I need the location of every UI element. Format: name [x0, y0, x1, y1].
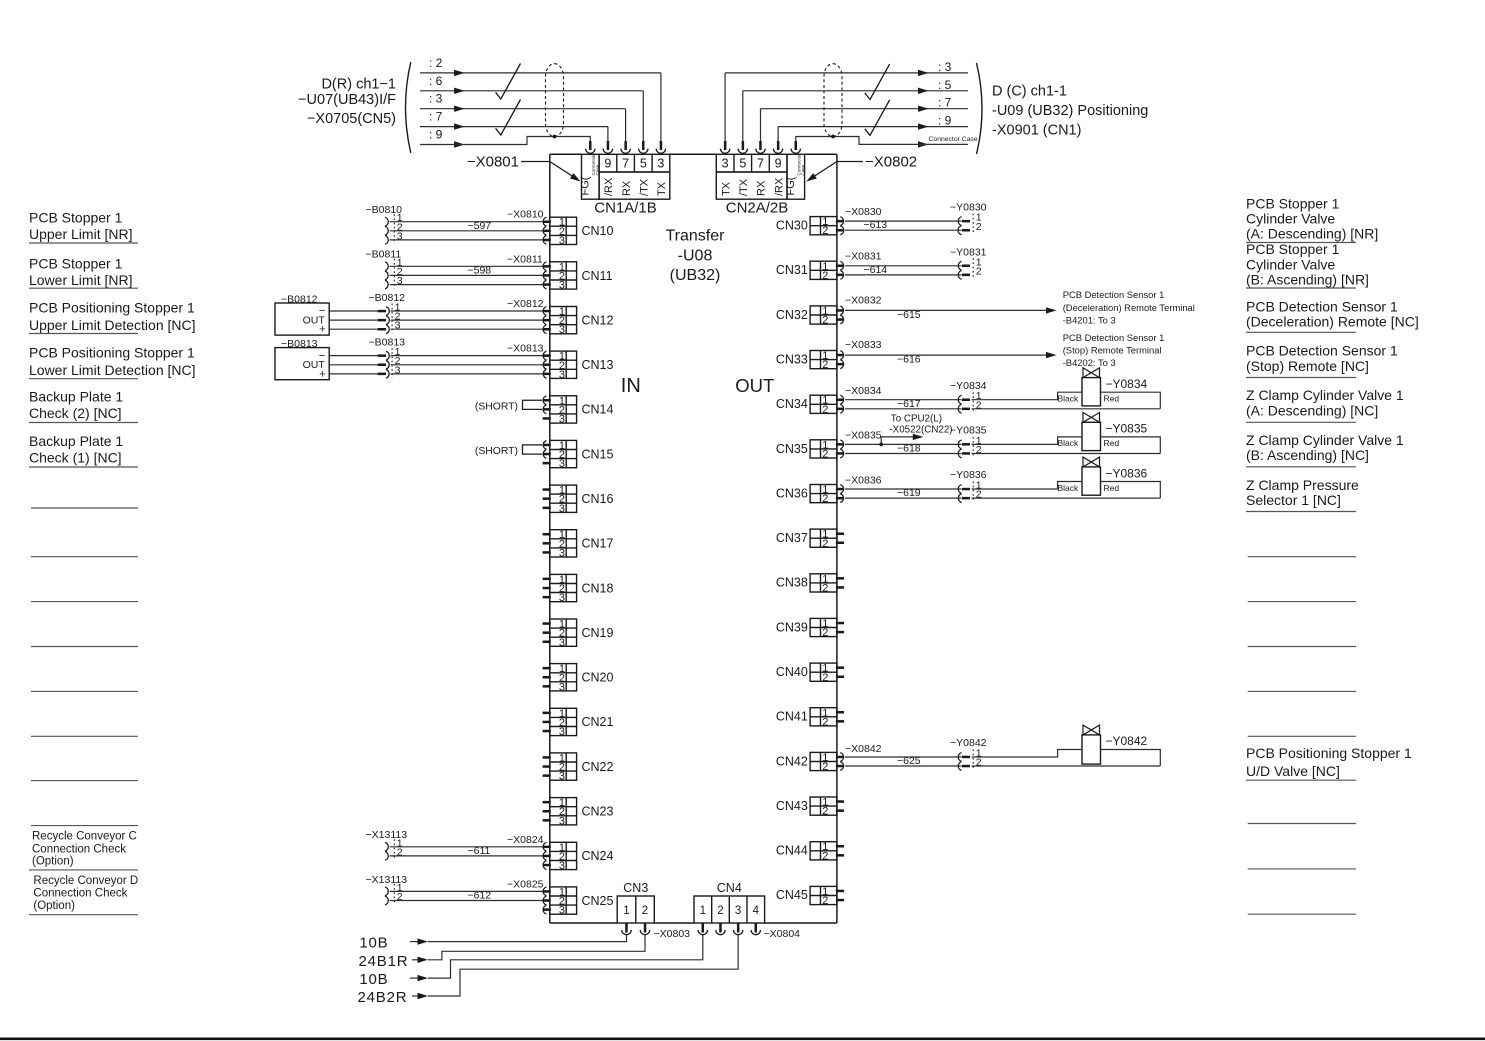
svg-text:PCB Stopper 1: PCB Stopper 1: [1246, 196, 1340, 212]
pins CN42 plugs -X0842: [836, 743, 882, 770]
connector CN34: [776, 395, 837, 416]
svg-text:3: 3: [559, 637, 565, 649]
svg-text:−615: −615: [897, 309, 921, 321]
svg-text:-X0901 (CN1): -X0901 (CN1): [992, 123, 1081, 139]
svg-text:: 9: : 9: [429, 128, 443, 142]
svg-text:CN20: CN20: [582, 671, 614, 685]
pins CN36 plugs -X0836: [836, 474, 882, 502]
pins CN25 sockets -X0825: [507, 878, 551, 914]
connector CN15: [550, 440, 614, 470]
svg-text:PCB Stopper 1: PCB Stopper 1: [29, 210, 123, 226]
svg-text:Check (1) [NC]: Check (1) [NC]: [29, 450, 122, 466]
svg-text:/RX: /RX: [603, 177, 615, 196]
solenoid valve -Y0834: [1058, 368, 1148, 406]
svg-text:−X0802: −X0802: [865, 154, 917, 171]
svg-text:−611: −611: [468, 845, 491, 857]
svg-text:2: 2: [822, 582, 828, 594]
svg-text:24B2R: 24B2R: [358, 989, 408, 1006]
svg-text:10B: 10B: [359, 971, 388, 988]
svg-text:CN39: CN39: [776, 620, 808, 634]
svg-text:-U08: -U08: [678, 247, 713, 264]
svg-text:3: 3: [395, 320, 401, 332]
svg-text:−X0831: −X0831: [845, 251, 882, 263]
svg-text:PCB Stopper 1: PCB Stopper 1: [29, 256, 123, 272]
pins CN40 unused: [836, 666, 844, 678]
svg-text:2: 2: [976, 757, 982, 769]
wire -619 to valve connector -Y0836: [845, 469, 987, 502]
svg-text:−X0810: −X0810: [507, 209, 544, 221]
svg-text:: 2: : 2: [429, 56, 443, 70]
svg-text:Black: Black: [1058, 483, 1080, 493]
connector CN45: [776, 886, 837, 907]
label PCB Stopper 1 Upper Limit [NR]: [29, 210, 138, 243]
connector CN13: [550, 351, 614, 381]
connector CN39: [776, 618, 837, 639]
svg-text:Lower Limit [NR]: Lower Limit [NR]: [29, 272, 132, 288]
svg-text:3: 3: [559, 369, 565, 381]
svg-text:CN41: CN41: [776, 710, 808, 724]
callout -X0801: [467, 154, 582, 185]
svg-text:−X0801: −X0801: [467, 154, 519, 171]
connector CN30: [776, 216, 837, 237]
pins CN14 shorting plug (SHORT): [475, 396, 551, 420]
pins CN44 unused: [836, 845, 844, 857]
svg-text:Red: Red: [1104, 438, 1120, 448]
label PCB Stopper 1 Cylinder Valve (A: Descending) [NR]: [1246, 196, 1378, 243]
svg-text:+: +: [319, 368, 325, 380]
junction shield drain right: [831, 135, 835, 139]
svg-text:7: 7: [757, 157, 764, 171]
svg-text:CN32: CN32: [776, 308, 808, 322]
label PCB Stopper 1 Lower Limit [NR]: [29, 256, 138, 289]
svg-text:(Stop) Remote [NC]: (Stop) Remote [NC]: [1246, 358, 1369, 374]
svg-text:−X0835: −X0835: [845, 430, 882, 442]
label D (C) ch1-1 -U09 (UB32) Positioning -X0901 (CN1): [992, 84, 1148, 139]
wire sensor to block: [329, 356, 542, 374]
svg-text:Upper Limit [NR]: Upper Limit [NR]: [29, 226, 132, 242]
blank labels right CN37-CN41: [1248, 557, 1356, 737]
svg-text:2: 2: [642, 905, 648, 917]
svg-text:/RX: /RX: [773, 177, 785, 196]
svg-text:CN45: CN45: [776, 888, 808, 902]
svg-text:−B0812: −B0812: [281, 294, 318, 306]
svg-text:: 7: : 7: [429, 110, 443, 124]
label PCB Detection Sensor 1 (Deceleration) Remote [NC]: [1246, 299, 1419, 333]
solenoid valve -Y0836: [1058, 457, 1148, 495]
pins CN32 plugs -X0832: [836, 294, 882, 324]
svg-text:TX: TX: [720, 181, 732, 196]
label PCB Detection Sensor 1 (Stop) Remote [NC]: [1246, 343, 1398, 378]
svg-text:5: 5: [739, 157, 746, 171]
svg-text:To CPU2(L): To CPU2(L): [891, 413, 942, 424]
pins CN30 plugs -X0830: [836, 206, 882, 235]
svg-text:−X0842: −X0842: [845, 743, 882, 755]
svg-text:CN2A/2B: CN2A/2B: [726, 200, 789, 217]
svg-text:2: 2: [822, 270, 828, 282]
svg-text:RX: RX: [621, 180, 633, 196]
svg-text:Case: Case: [595, 164, 600, 175]
svg-text:RX: RX: [756, 180, 768, 196]
wire valve leads -Y0835: [972, 437, 1161, 454]
svg-text:−X0812: −X0812: [507, 298, 544, 310]
pins CN38 unused: [836, 577, 844, 589]
wire sensor to block: [329, 311, 542, 329]
svg-text:−X0832: −X0832: [845, 294, 882, 306]
pins CN24 sockets -X0824: [507, 834, 551, 870]
wire -598 harness: [390, 264, 543, 284]
label PCB Stopper 1 Cylinder Valve (B: Ascending) [NR]: [1246, 241, 1369, 288]
svg-text:CN36: CN36: [776, 486, 808, 500]
svg-text:−U07(UB43)I/F: −U07(UB43)I/F: [298, 92, 396, 108]
svg-text:−617: −617: [897, 398, 921, 410]
connector CN41: [776, 707, 837, 728]
cable bracket left: [406, 62, 411, 153]
svg-text:CN42: CN42: [776, 754, 808, 768]
label Backup Plate 1 Check (2) [NC]: [29, 389, 138, 423]
pins CN18 unused: [543, 578, 551, 599]
svg-text:(A: Descending) [NC]: (A: Descending) [NC]: [1246, 403, 1378, 419]
shield left: [546, 64, 564, 137]
svg-text:TX: TX: [656, 181, 668, 196]
svg-text:2: 2: [822, 672, 828, 684]
svg-text:3: 3: [559, 771, 565, 783]
connector CN25: [550, 886, 614, 916]
svg-text:9: 9: [604, 157, 611, 171]
twisted pair mark left B: [496, 100, 521, 136]
pins CN33 plugs -X0833: [836, 339, 882, 369]
svg-text:/TX: /TX: [738, 178, 750, 196]
cable plug -B0810: [366, 204, 403, 244]
svg-text:2: 2: [822, 895, 828, 907]
svg-text:: 3: : 3: [429, 92, 443, 106]
svg-text:PCB Positioning Stopper 1: PCB Positioning Stopper 1: [29, 345, 195, 361]
pins CN22 unused: [543, 756, 551, 777]
svg-text:CN34: CN34: [776, 397, 808, 411]
connector CN19: [550, 619, 614, 649]
svg-text:Red: Red: [1104, 483, 1120, 493]
wire :6 to CN1A pin 5 /TX: [420, 74, 643, 141]
svg-text:−616: −616: [897, 354, 921, 366]
connector CN35: [776, 439, 837, 460]
svg-text:3: 3: [657, 157, 664, 171]
svg-text:Cylinder Valve: Cylinder Valve: [1246, 257, 1335, 273]
label Z Clamp Pressure Selector 1 [NC]: [1246, 477, 1359, 512]
svg-text:2: 2: [976, 265, 982, 277]
svg-text:CN31: CN31: [776, 263, 808, 277]
wire valve leads -Y0834: [972, 392, 1161, 409]
pins CN20 unused: [543, 667, 551, 688]
svg-text:CN1A/1B: CN1A/1B: [594, 200, 657, 217]
svg-text:3: 3: [559, 592, 565, 604]
pins CN45 unused: [836, 890, 844, 902]
wire :7 to CN1A pin 9 /RX: [420, 110, 608, 141]
svg-text:2: 2: [822, 716, 828, 728]
pins -X0803 below CN3: [622, 924, 690, 941]
wire -616 to remote terminal: [845, 332, 1164, 368]
svg-text:2: 2: [822, 404, 828, 416]
label D(R) ch1-1 -U07(UB43)I/F -X0705(CN5): [298, 76, 396, 127]
svg-text:CN21: CN21: [582, 715, 614, 729]
svg-text:PCB Detection Sensor 1: PCB Detection Sensor 1: [1063, 289, 1165, 300]
svg-text:3: 3: [559, 280, 565, 292]
label Z Clamp Cylinder Valve 1 (B: Ascending) [NC]: [1246, 432, 1404, 467]
svg-text:Selector 1 [NC]: Selector 1 [NC]: [1246, 492, 1341, 508]
connector CN10: [550, 217, 614, 247]
pins CN2A 3 5 7 9 FG: [720, 141, 800, 153]
svg-text:3: 3: [395, 364, 401, 376]
svg-text:CN22: CN22: [582, 760, 614, 774]
connector CN38: [776, 573, 837, 594]
pins CN43 unused: [836, 800, 844, 812]
svg-text:(B: Ascending) [NC]: (B: Ascending) [NC]: [1246, 447, 1369, 463]
svg-text:−X0803: −X0803: [654, 928, 691, 940]
twisted pair mark right B: [865, 100, 890, 136]
label Z Clamp Cylinder Valve 1 (A: Descending) [NC]: [1246, 387, 1404, 422]
pins CN23 unused: [543, 801, 551, 822]
connector CN44: [776, 841, 837, 862]
svg-text:CN16: CN16: [582, 492, 614, 506]
svg-text:Cylinder Valve: Cylinder Valve: [1246, 211, 1335, 227]
svg-text:3: 3: [559, 905, 565, 917]
connector CN3: [617, 881, 654, 923]
connector CN12: [550, 306, 614, 336]
svg-text:−597: −597: [468, 220, 492, 232]
svg-text:: 3: : 3: [938, 60, 952, 74]
pins -X0804 below CN4: [698, 924, 800, 941]
svg-text:2: 2: [717, 905, 723, 917]
net 24B2R to CN4 pin 3: [358, 935, 739, 1006]
svg-text:3: 3: [559, 324, 565, 336]
connector CN21: [550, 708, 614, 738]
svg-text:3: 3: [397, 230, 403, 242]
svg-text:−Y0835: −Y0835: [1106, 422, 1148, 436]
svg-text:CN12: CN12: [582, 313, 614, 327]
blank labels left CN16-CN23: [31, 508, 138, 826]
svg-text:2: 2: [822, 806, 828, 818]
svg-text:−619: −619: [897, 487, 921, 499]
svg-text:−X0804: −X0804: [764, 928, 801, 940]
svg-text:-B4201: To 3: -B4201: To 3: [1063, 315, 1116, 326]
svg-text:(Stop) Remote Terminal: (Stop) Remote Terminal: [1063, 345, 1162, 356]
node IN: [621, 375, 641, 397]
connector CN42: [776, 752, 837, 773]
svg-text:3: 3: [735, 905, 741, 917]
svg-text:CN18: CN18: [582, 581, 614, 595]
svg-text:Connector Case: Connector Case: [929, 136, 978, 143]
svg-text:Recycle Conveyor C: Recycle Conveyor C: [32, 831, 137, 843]
wire Connector Case shield drain from CN2A FG: [796, 136, 978, 148]
svg-text:Black: Black: [1058, 438, 1080, 448]
svg-text:3: 3: [559, 815, 565, 827]
connector CN36: [776, 484, 837, 505]
wire -625 to valve connector -Y0842: [845, 737, 987, 770]
svg-text:Backup Plate 1: Backup Plate 1: [29, 389, 123, 405]
svg-text:-X0522(CN22): -X0522(CN22): [889, 424, 952, 435]
svg-text:CN40: CN40: [776, 665, 808, 679]
callout -X0802: [804, 154, 917, 185]
label PCB Positioning Stopper 1 U/D Valve [NC]: [1246, 745, 1412, 780]
svg-text:-B4202: To 3: -B4202: To 3: [1063, 357, 1116, 368]
svg-text:2: 2: [397, 891, 403, 903]
svg-text:Backup Plate 1: Backup Plate 1: [29, 433, 123, 449]
svg-text:CN11: CN11: [582, 269, 613, 283]
wire -615 to remote terminal: [845, 289, 1195, 325]
net 24B1R to CN3 pin 2: [359, 935, 646, 970]
svg-text:D (C) ch1-1: D (C) ch1-1: [992, 84, 1067, 100]
svg-text:CN10: CN10: [582, 224, 614, 238]
wire -617 to valve connector -Y0834: [845, 380, 987, 413]
svg-text:−598: −598: [468, 264, 492, 276]
junction shield drain left: [553, 135, 557, 139]
connector pair -B0813: [369, 337, 406, 379]
label PCB Positioning Stopper 1 Upper Limit Detection [NC]: [29, 299, 196, 333]
svg-text:3: 3: [722, 157, 729, 171]
wire -614 to valve cable -Y0831: [845, 246, 987, 279]
svg-text:(SHORT): (SHORT): [475, 402, 518, 413]
svg-text:-U09 (UB32) Positioning: -U09 (UB32) Positioning: [992, 103, 1148, 119]
svg-text:−X0813: −X0813: [507, 343, 544, 355]
svg-text:2: 2: [822, 315, 828, 327]
connector CN22: [550, 753, 614, 783]
connector CN40: [776, 663, 837, 684]
net 10B to CN3 pin 1: [359, 935, 626, 952]
svg-text:Connection Check: Connection Check: [33, 888, 127, 900]
svg-text:7: 7: [622, 157, 629, 171]
svg-text:−X0836: −X0836: [845, 474, 882, 486]
svg-text:−613: −613: [864, 219, 888, 231]
svg-text:3: 3: [559, 681, 565, 693]
wire :3 from CN2A pin 3 TX: [725, 60, 968, 141]
svg-text:PCB Positioning Stopper 1: PCB Positioning Stopper 1: [29, 299, 195, 315]
svg-text:+: +: [319, 324, 325, 336]
svg-text:2: 2: [976, 399, 982, 411]
svg-text:: 5: : 5: [938, 78, 952, 92]
svg-text:3: 3: [397, 275, 403, 287]
svg-text:PCB Stopper 1: PCB Stopper 1: [1246, 241, 1340, 257]
svg-text:3: 3: [559, 726, 565, 738]
svg-text:2: 2: [976, 489, 982, 501]
connector CN14: [550, 395, 614, 425]
svg-text:2: 2: [822, 538, 828, 550]
wire :3 to CN1A pin 7 RX: [420, 92, 626, 141]
svg-text:5: 5: [640, 157, 647, 171]
svg-text:CN4: CN4: [717, 881, 742, 895]
svg-text:CN15: CN15: [582, 447, 614, 461]
svg-text:/TX: /TX: [638, 178, 650, 196]
svg-text:IN: IN: [621, 375, 641, 397]
svg-text:CN38: CN38: [776, 576, 808, 590]
svg-text:9: 9: [775, 157, 782, 171]
svg-text:(Option): (Option): [33, 900, 75, 912]
svg-text:: 9: : 9: [938, 114, 952, 128]
svg-text:CN43: CN43: [776, 799, 808, 813]
svg-text:Check (2) [NC]: Check (2) [NC]: [29, 405, 122, 421]
svg-text:−X0824: −X0824: [507, 834, 544, 846]
cable bracket right: [977, 63, 983, 154]
connector CN16: [550, 485, 614, 515]
svg-text:PCB Positioning Stopper 1: PCB Positioning Stopper 1: [1246, 745, 1412, 761]
node OUT: [735, 375, 774, 396]
connector CN4: [694, 881, 765, 923]
connector CN1A/1B: [580, 154, 670, 217]
svg-text:2: 2: [976, 444, 982, 456]
svg-text:(A: Descending) [NR]: (A: Descending) [NR]: [1246, 226, 1378, 242]
svg-text:2: 2: [822, 449, 828, 461]
label PCB Positioning Stopper 1 Lower Limit Detection [NC]: [29, 345, 196, 379]
twisted pair mark left A: [496, 64, 521, 100]
svg-text:(Deceleration) Remote Terminal: (Deceleration) Remote Terminal: [1063, 302, 1195, 313]
svg-text:(Deceleration) Remote [NC]: (Deceleration) Remote [NC]: [1246, 314, 1419, 330]
wire -613 to valve cable -Y0830: [845, 202, 987, 235]
pins CN21 unused: [543, 712, 551, 733]
svg-text:2: 2: [976, 221, 982, 233]
svg-text:4: 4: [753, 905, 760, 917]
svg-text:−618: −618: [897, 443, 921, 455]
pins CN35 plugs -X0835: [836, 430, 882, 458]
cable plug -B0811: [366, 249, 403, 289]
svg-text:PCB Detection Sensor 1: PCB Detection Sensor 1: [1063, 332, 1165, 343]
svg-text:2: 2: [822, 627, 828, 639]
pins CN17 unused: [543, 533, 551, 554]
svg-text:Upper Limit Detection [NC]: Upper Limit Detection [NC]: [29, 317, 196, 333]
connector CN20: [550, 663, 614, 693]
svg-text:CN14: CN14: [582, 403, 614, 417]
svg-text:24B1R: 24B1R: [359, 953, 409, 970]
svg-text:PCB Detection Sensor 1: PCB Detection Sensor 1: [1246, 299, 1398, 315]
cable plug -X13113: [366, 874, 408, 905]
svg-text:CN13: CN13: [582, 358, 614, 372]
cable plug -X13113: [366, 829, 408, 860]
connector CN33: [776, 350, 837, 371]
svg-text:2: 2: [822, 493, 828, 505]
label Backup Plate 1 Check (1) [NC]: [29, 433, 138, 467]
pins CN19 unused: [543, 622, 551, 643]
pins CN10 1 2 3 sockets -X0810: [507, 209, 551, 245]
svg-text:2: 2: [397, 846, 403, 858]
connector CN17: [550, 529, 614, 559]
svg-text:Transfer: Transfer: [666, 228, 726, 245]
svg-text:3: 3: [559, 860, 565, 872]
svg-text:−Y0834: −Y0834: [1106, 377, 1148, 391]
svg-text:−X0705(CN5): −X0705(CN5): [307, 111, 396, 127]
svg-text:−625: −625: [897, 755, 921, 767]
wire -612 harness: [390, 890, 543, 902]
svg-text:(UB32): (UB32): [670, 267, 721, 284]
svg-text:Connection Check: Connection Check: [32, 843, 126, 855]
svg-text:Z Clamp Pressure: Z Clamp Pressure: [1246, 477, 1359, 493]
connector CN37: [776, 529, 837, 550]
pins CN41 unused: [836, 711, 844, 723]
wire -597 harness: [390, 220, 543, 240]
svg-text:FG(: FG(: [580, 176, 592, 195]
svg-text:FG(: FG(: [785, 176, 797, 195]
svg-text:D(R) ch1−1: D(R) ch1−1: [321, 76, 396, 92]
svg-text:3: 3: [559, 503, 565, 515]
svg-text:2: 2: [822, 359, 828, 371]
connector CN2A/2B: [716, 154, 805, 217]
wire :7 from CN2A pin 7 RX: [761, 96, 969, 141]
svg-text:−Y0836: −Y0836: [1106, 466, 1148, 480]
sensor output box -B0812: [275, 294, 329, 336]
twisted pair mark right A: [865, 64, 890, 100]
connector pair -B0812: [369, 292, 406, 334]
pins CN15 shorting plug (SHORT): [475, 441, 551, 465]
connector CN23: [550, 797, 614, 827]
svg-text:3: 3: [559, 235, 565, 247]
wire :9 from CN2A pin 9 /RX: [778, 114, 968, 141]
wire :2 to CN1A pin 3 TX: [420, 56, 661, 141]
wire :5 from CN2A pin 5 /TX: [743, 78, 968, 141]
